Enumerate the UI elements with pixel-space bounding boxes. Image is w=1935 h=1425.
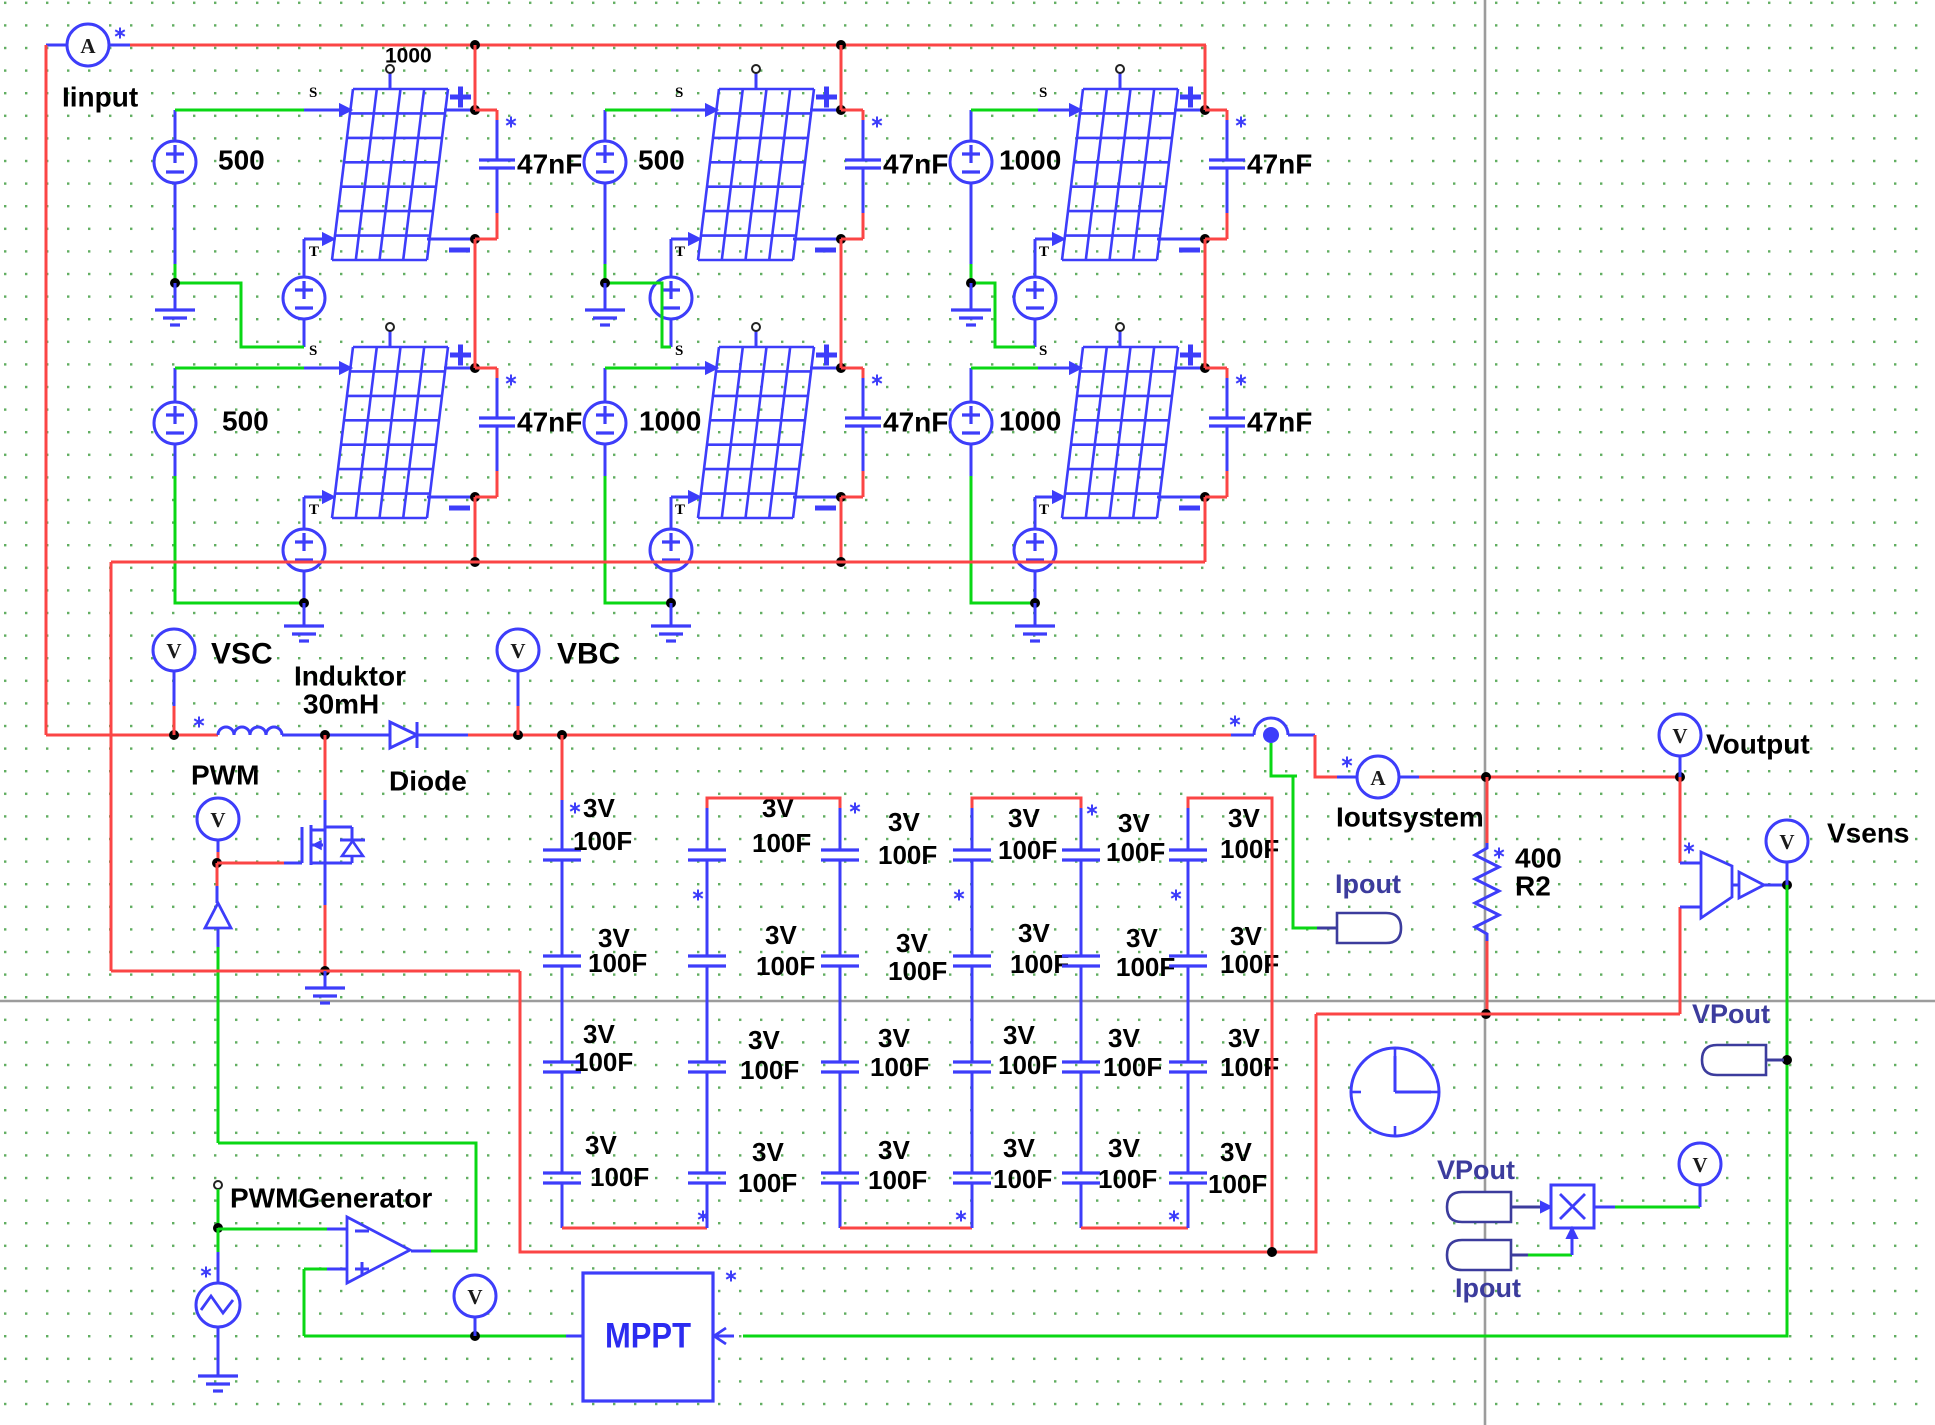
triangle wave source (196, 1283, 240, 1327)
svg-text:3V: 3V (878, 1135, 910, 1165)
multiplier block (1551, 1185, 1594, 1228)
wire terminal to node (217, 1189, 220, 1228)
top terminal PV23 (1116, 323, 1124, 348)
wire ground stub PV22 (670, 603, 673, 625)
minus label PV21 (449, 506, 470, 511)
wire T-source return PV13 (1034, 319, 1037, 347)
svg-text:100F: 100F (993, 1164, 1052, 1194)
minus label PV13 (1179, 248, 1200, 253)
junction + PV21 (470, 363, 480, 373)
wire VBC stub (517, 671, 520, 706)
junction VSC (169, 730, 179, 740)
T input arrow PV12 (689, 234, 700, 245)
ground PV23 (1015, 626, 1055, 641)
wire left vertical x111 (110, 562, 113, 971)
hop polarity mark (1230, 716, 1240, 727)
T input arrow PV22 (689, 492, 700, 503)
svg-text:100F: 100F (998, 1050, 1057, 1080)
multiplier bottom arrow (1567, 1228, 1577, 1238)
wire gate driver input green (217, 928, 220, 947)
wire S-input green PV12 (604, 110, 607, 141)
solar panel PV11 (332, 89, 448, 260)
svg-text:500: 500 (218, 145, 265, 176)
wire top rail red (110, 44, 130, 47)
wire top bracket col4-col5 (971, 808, 974, 850)
top terminal PV13 (1116, 65, 1124, 90)
wire T-input PV11 (304, 238, 322, 241)
junction - PV23 (1200, 492, 1210, 502)
svg-text:V: V (510, 639, 525, 663)
junction - PV11 (470, 234, 480, 244)
wire T-source return PV21 (303, 571, 306, 603)
svg-text:V: V (210, 808, 225, 832)
svg-text:Vsens: Vsens (1827, 818, 1910, 849)
wire Voutput stub (1679, 756, 1682, 777)
junction R2 bottom (1481, 1009, 1491, 1019)
wire plus input down (303, 1269, 306, 1336)
svg-text:3V: 3V (1018, 918, 1050, 948)
gain buffer (1732, 884, 1739, 887)
capacitor polarity mark PV21 (506, 375, 516, 386)
wire cap column 1 segments (561, 860, 564, 1173)
minus label PV23 (1179, 506, 1200, 511)
supercapacitor 3V 100F bank col4 row1 (953, 850, 991, 860)
wire top bracket col2-col3 (706, 808, 709, 850)
wire output bottom rail (1316, 1013, 1680, 1016)
svg-text:3V: 3V (1220, 1137, 1252, 1167)
T input arrow PV11 (323, 234, 334, 245)
wire gate (217, 862, 284, 865)
svg-text:Diode: Diode (389, 766, 467, 797)
junction + PV22 (836, 363, 846, 373)
svg-text:47nF: 47nF (1247, 149, 1312, 180)
junction + PV13 (1200, 105, 1210, 115)
wire red drop above PV21 (474, 239, 477, 368)
wire S-input green PV13 (970, 110, 973, 141)
svg-text:100F: 100F (1220, 834, 1279, 864)
top terminal PV21 (386, 323, 394, 348)
wire + output PV23 (1174, 367, 1205, 370)
svg-text:R2: R2 (1515, 871, 1551, 902)
svg-text:3V: 3V (585, 1130, 617, 1160)
supercapacitor 3V 100F bank col6 row2 (1169, 956, 1207, 966)
Ioutsystem polarity mark (1342, 757, 1352, 768)
wire node to Ioutsystem (1315, 735, 1337, 777)
svg-text:100F: 100F (1220, 1052, 1279, 1082)
ground PV12 (585, 310, 625, 325)
svg-text:3V: 3V (765, 920, 797, 950)
capacitor 47nF PV22 (841, 368, 881, 497)
svg-text:S: S (1039, 343, 1047, 359)
top terminal PV22 (752, 323, 760, 348)
wire cap column 3 segments (839, 860, 842, 1173)
ground PV22 (651, 626, 691, 641)
svg-text:100F: 100F (1103, 1052, 1162, 1082)
svg-text:3V: 3V (1228, 803, 1260, 833)
subtractor block (1701, 852, 1732, 918)
supercapacitor 3V 100F bank col2 row1 (688, 850, 726, 860)
comparator op-amp (347, 1217, 410, 1283)
junction mosfet drain (320, 730, 330, 740)
svg-text:VPout: VPout (1437, 1155, 1515, 1185)
wire inductor to mosfet (282, 734, 390, 737)
S input arrow PV21 (340, 363, 351, 374)
capacitor 47nF PV21 (475, 368, 515, 497)
junction - PV13 (1200, 234, 1210, 244)
svg-text:3V: 3V (888, 807, 920, 837)
voltmeter VSC (153, 629, 195, 671)
wire source bottom PV21 (174, 444, 177, 476)
svg-text:MPPT: MPPT (605, 1317, 691, 1356)
S input arrow PV12 (706, 105, 717, 116)
wire red drop below PV21 (474, 497, 477, 562)
triangle source polarity mark (201, 1267, 211, 1278)
svg-text:47nF: 47nF (517, 407, 582, 438)
supercapacitor 3V 100F bank col1 row1 (543, 850, 581, 860)
wire left vertical input (45, 45, 48, 735)
wire Vsens feedback green (743, 885, 1787, 1336)
svg-text:100F: 100F (1098, 1164, 1157, 1194)
svg-text:PWMGenerator: PWMGenerator (230, 1183, 432, 1214)
svg-text:S: S (1039, 85, 1047, 101)
svg-text:3V: 3V (752, 1137, 784, 1167)
svg-text:T: T (309, 244, 319, 260)
svg-text:3V: 3V (583, 1019, 615, 1049)
wire T-source return PV23 (1034, 571, 1037, 603)
wire source bottom PV22 (604, 444, 607, 476)
supercapacitor 3V 100F bank col6 row3 (1169, 1062, 1207, 1072)
svg-text:100F: 100F (1116, 952, 1175, 982)
wire T-input PV13 (1035, 238, 1052, 241)
T input arrow PV13 (1053, 234, 1064, 245)
svg-text:Voutput: Voutput (1706, 729, 1810, 760)
from-tag Ipout bottom (1447, 1240, 1511, 1270)
svg-text:V: V (1779, 830, 1794, 854)
wire red drop below PV13 (1204, 239, 1207, 368)
svg-text:3V: 3V (878, 1023, 910, 1053)
voltmeter PWM (197, 798, 239, 840)
wire VPout to multiplier (1511, 1206, 1540, 1209)
svg-text:100F: 100F (738, 1168, 797, 1198)
wire buffer to Vsens node (1764, 884, 1787, 887)
solar panel PV21 (332, 347, 448, 518)
plus label PV23 (1180, 345, 1201, 366)
supercapacitor 3V 100F bank col4 row2 (953, 956, 991, 966)
junction ground node PV13 (966, 278, 976, 288)
goto-tag VPout bottom (1447, 1192, 1511, 1222)
ground PV21 (284, 626, 324, 641)
gray crosshair horizontal (0, 1000, 1935, 1003)
goto-tag VPout right (1702, 1045, 1766, 1075)
ground PV11 (155, 310, 195, 325)
voltmeter Vsens (1766, 820, 1808, 862)
svg-text:3V: 3V (748, 1025, 780, 1055)
wire ground stub PV23 (1034, 603, 1037, 625)
svg-text:V: V (467, 1285, 482, 1309)
cap bank polarity marks (570, 803, 580, 814)
temperature source PV23 (1014, 529, 1056, 571)
wire - output PV12 (793, 238, 841, 241)
wire red drop above PV13 (1204, 45, 1207, 110)
svg-text:T: T (675, 502, 685, 518)
temperature source PV13 (1014, 277, 1056, 319)
wire top bracket col6 to output return (1187, 808, 1190, 850)
svg-text:1000: 1000 (639, 406, 701, 437)
junction duty voltmeter (470, 1331, 480, 1341)
wire VSC stub (173, 671, 176, 706)
from-tag Ipout near ammeter (1337, 913, 1401, 943)
ground mosfet (305, 988, 345, 1003)
junction ground node PV23 (1030, 598, 1040, 608)
svg-text:100F: 100F (888, 956, 947, 986)
gray crosshair vertical (1484, 0, 1487, 1425)
wire - output PV23 (1157, 496, 1205, 499)
svg-text:47nF: 47nF (883, 407, 948, 438)
junction + PV12 (836, 105, 846, 115)
plus label PV13 (1180, 87, 1201, 108)
svg-text:T: T (675, 244, 685, 260)
voltmeter power output (1679, 1143, 1721, 1185)
junction Vsens (1782, 880, 1792, 890)
svg-text:100F: 100F (868, 1165, 927, 1195)
svg-text:1000: 1000 (999, 145, 1061, 176)
capacitor polarity mark PV23 (1236, 375, 1246, 386)
wire - output PV21 (427, 496, 475, 499)
wire T-input PV21 (304, 496, 322, 499)
supercapacitor 3V 100F bank col3 row3 (821, 1062, 859, 1072)
junction + PV23 (1200, 363, 1210, 373)
junction bottom rail col6 (1267, 1247, 1277, 1257)
svg-text:Ipout: Ipout (1455, 1273, 1521, 1303)
svg-text:3V: 3V (583, 793, 615, 823)
wire diode to node (417, 734, 468, 737)
svg-text:100F: 100F (756, 951, 815, 981)
wire cap col1 to main line (557, 730, 567, 740)
wire red drop above PV22 (840, 239, 843, 368)
wire Voutput to subtractor (1679, 777, 1682, 863)
resistor R2 400 (1475, 777, 1499, 1014)
wire T-source return PV11 (303, 319, 306, 347)
wire red drop above PV12 (840, 45, 843, 110)
S input arrow PV23 (1070, 363, 1081, 374)
irradiance source PV11 (154, 141, 196, 183)
wire red drop below PV22 (840, 497, 843, 562)
svg-text:100F: 100F (1010, 949, 1069, 979)
temperature source PV22 (650, 529, 692, 571)
svg-text:3V: 3V (1003, 1020, 1035, 1050)
S input arrow PV11 (340, 105, 351, 116)
irradiance source PV12 (584, 141, 626, 183)
top terminal PV11 (386, 65, 394, 90)
terminal PWMGenerator (214, 1181, 222, 1189)
junction rail2 col1 (470, 557, 480, 567)
junction rail2 col2 (836, 557, 846, 567)
wire row2 rail red (111, 561, 1205, 564)
svg-text:100F: 100F (998, 835, 1057, 865)
svg-text:400: 400 (1515, 843, 1562, 874)
wire Vsens stub (1786, 862, 1789, 885)
svg-text:T: T (1039, 244, 1049, 260)
supercapacitor 3V 100F bank col2 row2 (688, 956, 726, 966)
ammeter Ioutsystem (1357, 756, 1399, 798)
inductor polarity mark (194, 717, 204, 728)
wire + output PV22 (810, 367, 841, 370)
svg-text:100F: 100F (588, 948, 647, 978)
wire ground stub PV11 (174, 283, 177, 309)
capacitor polarity mark PV22 (872, 375, 882, 386)
wire PWM stub (217, 840, 220, 852)
svg-text:PWM: PWM (191, 760, 259, 791)
wire S-input green PV23 (970, 368, 973, 402)
ground triangle source (198, 1376, 238, 1391)
wire red drop above PV11 (474, 45, 477, 110)
wire source to ground (217, 1327, 220, 1376)
supercapacitor 3V 100F bank col6 row1 (1169, 850, 1207, 860)
capacitor polarity mark PV12 (872, 117, 882, 128)
supercapacitor 3V 100F bank col3 row4 (821, 1173, 859, 1183)
diode Diode (390, 722, 417, 748)
plus label PV21 (450, 345, 471, 366)
supercapacitor 3V 100F bank col5 row1 (1062, 850, 1100, 860)
wire red drop above PV23 (1204, 239, 1207, 368)
wire bottom bracket col3-col4 (839, 1183, 842, 1228)
svg-text:47nF: 47nF (517, 149, 582, 180)
junction mosfet source (320, 966, 330, 976)
svg-text:A: A (1370, 766, 1386, 790)
transistor MOSFET (302, 735, 365, 971)
svg-text:1000: 1000 (385, 45, 432, 68)
wire VPout tag stub (1766, 1059, 1784, 1062)
supercapacitor 3V 100F bank col5 row4 (1062, 1173, 1100, 1183)
wire T-source return PV22 (670, 571, 673, 603)
svg-text:V: V (166, 639, 181, 663)
temperature source PV11 (283, 277, 325, 319)
T input arrow PV21 (323, 492, 334, 503)
svg-text:VSC: VSC (211, 638, 273, 671)
wire cap column 2 segments (706, 860, 709, 1173)
svg-text:Iinput: Iinput (62, 82, 138, 113)
svg-text:3V: 3V (1008, 803, 1040, 833)
junction R2 top (1481, 772, 1491, 782)
supercapacitor 3V 100F bank col5 row3 (1062, 1062, 1100, 1072)
temperature source PV21 (283, 529, 325, 571)
junction top rail col1 (470, 40, 480, 50)
svg-text:3V: 3V (1228, 1023, 1260, 1053)
supercapacitor 3V 100F bank col1 row4 (543, 1173, 581, 1183)
junction + PV11 (470, 105, 480, 115)
wire left stub to ammeter (46, 44, 67, 47)
wire bottom rail (520, 971, 1316, 1252)
svg-text:47nF: 47nF (883, 149, 948, 180)
svg-text:Ipout: Ipout (1335, 869, 1401, 899)
S input arrow PV22 (706, 363, 717, 374)
svg-text:V: V (1692, 1153, 1707, 1177)
svg-text:500: 500 (222, 406, 269, 437)
svg-text:S: S (309, 85, 317, 101)
capacitor 47nF PV13 (1205, 110, 1245, 239)
subtractor polarity mark (1684, 843, 1694, 854)
capacitor polarity mark PV11 (506, 117, 516, 128)
wire mosfet source rail (111, 970, 520, 973)
MPPT polarity mark (726, 1271, 736, 1282)
junction PWMGenerator (213, 1223, 223, 1233)
supercapacitor 3V 100F bank col1 row2 (543, 956, 581, 966)
svg-text:100F: 100F (1220, 949, 1279, 979)
svg-text:VBC: VBC (557, 638, 620, 671)
junction VPout tap (1782, 1055, 1792, 1065)
supercapacitor 3V 100F bank col3 row2 (821, 956, 859, 966)
svg-text:3V: 3V (1126, 923, 1158, 953)
top terminal PV12 (752, 65, 760, 90)
svg-text:S: S (675, 85, 683, 101)
svg-text:A: A (80, 34, 96, 58)
gate driver buffer (216, 863, 219, 886)
wire to triangle source (217, 1228, 220, 1252)
wire source bottom PV23 (970, 444, 973, 476)
Iinput polarity mark (115, 28, 125, 39)
svg-text:100F: 100F (1106, 837, 1165, 867)
wire - output PV11 (427, 238, 475, 241)
wire ground stub PV21 (303, 603, 306, 625)
voltmeter duty (454, 1275, 496, 1317)
svg-text:Ioutsystem: Ioutsystem (1336, 802, 1484, 833)
wire Ioutsystem to Voutput node (1399, 776, 1419, 779)
svg-text:3V: 3V (896, 928, 928, 958)
minus label PV11 (449, 248, 470, 253)
junction - PV22 (836, 492, 846, 502)
plus label PV12 (816, 87, 837, 108)
wire node hop (1231, 734, 1254, 737)
wire S-input green PV21 (174, 368, 177, 402)
wire ground stub PV13 (970, 283, 973, 309)
wire red drop below PV23 (1204, 497, 1207, 562)
junction PWM gate (212, 858, 222, 868)
supercapacitor 3V 100F bank col4 row4 (953, 1173, 991, 1183)
svg-text:S: S (675, 343, 683, 359)
svg-text:3V: 3V (1118, 808, 1150, 838)
solar panel PV23 (1062, 347, 1178, 518)
wire main line left (46, 734, 218, 737)
temperature source PV12 (650, 277, 692, 319)
multiplier input arrow (1541, 1202, 1551, 1212)
svg-text:3V: 3V (1108, 1023, 1140, 1053)
junction ground node PV11 (170, 278, 180, 288)
wire S-input green PV22 (604, 368, 607, 402)
svg-text:100F: 100F (590, 1162, 649, 1192)
wire comparator output loop (411, 1250, 431, 1253)
wire red drop below PV12 (840, 239, 843, 368)
wire tap to Ipout tag (1271, 743, 1297, 776)
R2 polarity mark (1494, 848, 1504, 859)
junction VBC (513, 730, 523, 740)
junction - PV21 (470, 492, 480, 502)
ammeter Iinput (67, 24, 109, 66)
wire source bottom PV12 (604, 183, 607, 264)
svg-text:S: S (309, 343, 317, 359)
supercapacitor 3V 100F bank col6 row4 (1169, 1173, 1207, 1183)
wire + output PV21 (444, 367, 475, 370)
svg-text:V: V (1672, 724, 1687, 748)
supercapacitor 3V 100F bank col1 row3 (543, 1062, 581, 1072)
svg-text:3V: 3V (1003, 1133, 1035, 1163)
clock block (1351, 1048, 1439, 1136)
voltmeter Voutput (1659, 714, 1701, 756)
wire to comparator minus (218, 1228, 327, 1231)
svg-text:VPout: VPout (1692, 999, 1770, 1029)
solar panel PV12 (698, 89, 814, 260)
junction Voutput (1675, 772, 1685, 782)
wire - output PV22 (793, 496, 841, 499)
